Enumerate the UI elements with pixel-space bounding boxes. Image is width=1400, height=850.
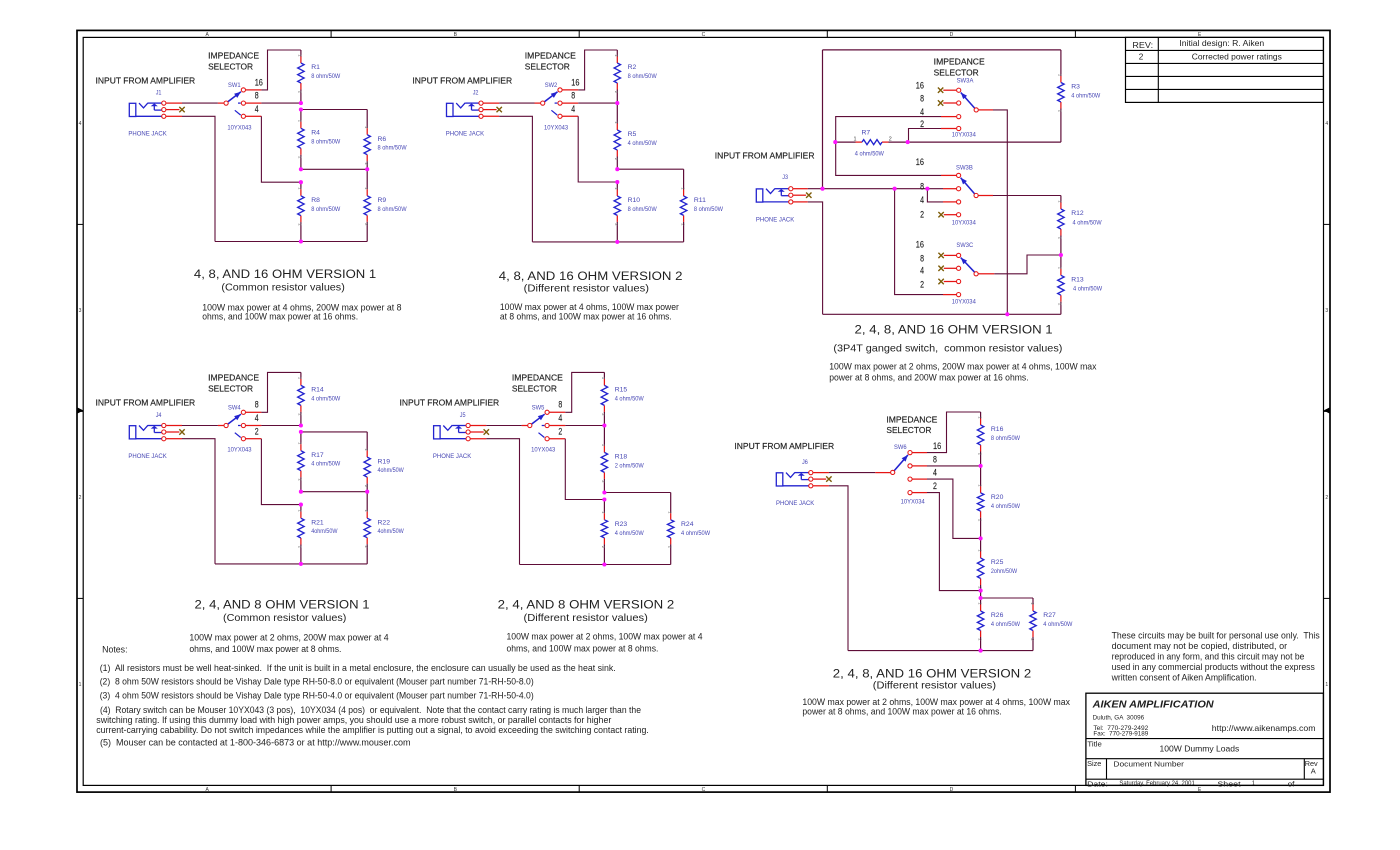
resistor R18 <box>601 426 644 493</box>
svg-text:4 ohm/50W: 4 ohm/50W <box>1043 621 1073 628</box>
copyright notice <box>1111 631 1321 683</box>
wire <box>944 267 956 269</box>
svg-text:(1) All resistors must be wel: (1) All resistors must be well heat-sink… <box>100 663 616 673</box>
svg-text:4 ohm/50W: 4 ohm/50W <box>615 530 645 537</box>
svg-text:R9: R9 <box>378 197 387 204</box>
svg-text:D: D <box>950 32 954 38</box>
junction <box>602 490 606 494</box>
svg-text:J1: J1 <box>156 90 162 97</box>
svg-text:10YX043: 10YX043 <box>227 124 251 131</box>
svg-text:used in any commercial product: used in any commercial products without … <box>1112 662 1316 672</box>
junction <box>979 649 983 653</box>
wire <box>246 89 262 91</box>
svg-text:8 ohm/50W: 8 ohm/50W <box>311 73 341 80</box>
wire <box>829 472 875 474</box>
junction <box>602 562 606 566</box>
svg-text:4ohm/50W: 4ohm/50W <box>311 528 338 535</box>
wire <box>182 116 215 241</box>
svg-text:2: 2 <box>255 426 259 436</box>
svg-text:R24: R24 <box>681 521 694 528</box>
phone jack J1 <box>129 101 166 118</box>
wire <box>532 241 683 243</box>
svg-text:(2) 8 ohm 50W resistors shoul: (2) 8 ohm 50W resistors should be Vishay… <box>100 676 534 686</box>
wire <box>301 431 367 433</box>
svg-text:SELECTOR: SELECTOR <box>208 62 253 71</box>
svg-text:INPUT FROM AMPLIFIER: INPUT FROM AMPLIFIER <box>734 442 834 451</box>
svg-text:R1: R1 <box>311 64 320 71</box>
svg-text:Duluth, GA 30096: Duluth, GA 30096 <box>1093 714 1145 721</box>
svg-text:100W max power at 2 ohms, 100W: 100W max power at 2 ohms, 100W max power… <box>507 632 703 642</box>
junction <box>615 101 619 105</box>
wire <box>246 115 262 117</box>
svg-text:4: 4 <box>571 104 575 114</box>
junction <box>299 423 303 427</box>
wire <box>808 202 823 314</box>
svg-text:4, 8, AND 16 OHM VERSION 1: 4, 8, AND 16 OHM VERSION 1 <box>194 267 376 281</box>
svg-text:4: 4 <box>255 413 259 423</box>
svg-text:3: 3 <box>79 308 82 314</box>
svg-text:2, 4, 8, AND 16 OHM VERSION 2: 2, 4, 8, AND 16 OHM VERSION 2 <box>833 667 1032 681</box>
svg-text:ohms, and 100W max power at 8: ohms, and 100W max power at 8 ohms. <box>189 644 341 654</box>
svg-text:R10: R10 <box>628 197 641 204</box>
junction <box>979 589 983 593</box>
svg-text:R7: R7 <box>862 130 871 137</box>
wire <box>993 195 1061 197</box>
svg-text:10YX034: 10YX034 <box>952 298 976 305</box>
wire <box>912 478 927 480</box>
svg-text:4: 4 <box>1325 121 1328 127</box>
svg-text:4 ohm/50W: 4 ohm/50W <box>991 621 1021 628</box>
svg-text:J5: J5 <box>460 412 466 419</box>
wire <box>578 102 617 104</box>
resistor R1 <box>298 50 341 103</box>
wire <box>215 563 367 565</box>
svg-text:16: 16 <box>916 239 924 249</box>
svg-text:power at 8 ohms, and 200W max: power at 8 ohms, and 200W max power at 1… <box>829 372 1028 382</box>
wire <box>875 472 890 474</box>
svg-text:R14: R14 <box>311 387 324 394</box>
svg-text:R23: R23 <box>615 521 628 528</box>
rotary switch SW4 <box>224 404 252 453</box>
svg-text:10YX034: 10YX034 <box>952 219 976 226</box>
no-connect <box>938 266 943 271</box>
resistor R11 <box>680 169 723 242</box>
svg-text:1: 1 <box>854 136 857 142</box>
wire <box>941 116 956 118</box>
wire <box>562 102 578 104</box>
svg-text:PHONE JACK: PHONE JACK <box>433 453 472 460</box>
svg-text:8: 8 <box>920 254 924 264</box>
wire <box>944 281 956 283</box>
svg-text:reproduced in any form, and th: reproduced in any form, and this circuit… <box>1112 652 1305 662</box>
wire <box>980 591 982 598</box>
svg-text:R17: R17 <box>311 452 324 459</box>
wire <box>261 439 301 505</box>
no-connect <box>938 100 943 105</box>
svg-text:2, 4, 8, AND 16 OHM VERSION 1: 2, 4, 8, AND 16 OHM VERSION 1 <box>855 322 1053 336</box>
svg-text:4ohm/50W: 4ohm/50W <box>378 528 405 535</box>
svg-text:ohms, and 100W max power at 8: ohms, and 100W max power at 8 ohms. <box>507 643 659 653</box>
svg-text:D: D <box>950 787 954 793</box>
wire <box>166 109 179 111</box>
wire <box>823 313 1061 315</box>
svg-text:INPUT FROM AMPLIFIER: INPUT FROM AMPLIFIER <box>412 76 512 85</box>
svg-text:R22: R22 <box>378 519 391 526</box>
svg-text:(3) 4 ohm 50W resistors shoul: (3) 4 ohm 50W resistors should be Vishay… <box>100 690 534 700</box>
svg-text:8: 8 <box>558 400 562 410</box>
svg-text:http://www.aikenamps.com: http://www.aikenamps.com <box>1212 723 1316 733</box>
resistor R20 <box>977 466 1020 539</box>
svg-text:16: 16 <box>916 157 924 167</box>
wire <box>912 452 927 454</box>
phone jack J6 <box>776 471 813 488</box>
no-connect <box>497 107 502 112</box>
svg-text:SW6: SW6 <box>894 444 907 451</box>
wire <box>182 439 215 564</box>
wire <box>578 116 617 182</box>
svg-text:R25: R25 <box>991 559 1004 566</box>
wire <box>549 411 565 413</box>
resistor R26 <box>977 598 1020 651</box>
svg-text:4 ohm/50W: 4 ohm/50W <box>1073 286 1103 293</box>
junction <box>979 536 983 540</box>
svg-text:4 ohm/50W: 4 ohm/50W <box>311 461 341 468</box>
junction <box>615 240 619 244</box>
svg-text:J2: J2 <box>473 90 479 97</box>
wire <box>908 141 1061 143</box>
resistor R25 <box>977 538 1017 590</box>
wire <box>979 273 995 275</box>
wire <box>499 116 532 242</box>
wire <box>944 254 956 256</box>
wire <box>246 411 262 413</box>
svg-text:(3P4T ganged switch, common r: (3P4T ganged switch, common resistor val… <box>833 343 1062 354</box>
svg-text:of: of <box>1288 779 1296 788</box>
wire <box>261 425 301 427</box>
svg-text:Saturday, February 24, 2001: Saturday, February 24, 2001 <box>1119 781 1195 787</box>
wire <box>927 493 981 591</box>
wire <box>166 431 179 433</box>
svg-text:SELECTOR: SELECTOR <box>934 68 979 77</box>
resistor R22 <box>364 492 404 564</box>
svg-text:SELECTOR: SELECTOR <box>208 385 253 394</box>
svg-text:(Common resistor values): (Common resistor values) <box>221 283 344 294</box>
svg-text:SW3C: SW3C <box>956 242 973 249</box>
wire <box>793 188 808 190</box>
svg-text:J3: J3 <box>782 174 788 181</box>
wire <box>520 564 671 566</box>
wire <box>483 115 499 117</box>
wire <box>470 438 486 440</box>
junction <box>602 423 606 427</box>
wire <box>565 439 604 500</box>
junction <box>602 497 606 501</box>
svg-text:R4: R4 <box>311 130 320 137</box>
svg-text:8: 8 <box>571 91 575 101</box>
svg-text:4ohm/50W: 4ohm/50W <box>378 467 405 474</box>
svg-text:4, 8, AND 16 OHM VERSION 2: 4, 8, AND 16 OHM VERSION 2 <box>499 269 683 283</box>
junction <box>979 464 983 468</box>
svg-text:8: 8 <box>920 94 924 104</box>
wire <box>979 195 994 197</box>
wire <box>895 189 943 295</box>
junction <box>365 490 369 494</box>
no-connect <box>938 279 943 284</box>
wire <box>912 492 927 494</box>
wire <box>166 425 182 427</box>
wire <box>813 472 829 474</box>
wire <box>215 241 367 243</box>
svg-text:4: 4 <box>79 121 82 127</box>
svg-text:4 ohm/50W: 4 ohm/50W <box>311 395 341 402</box>
phone jack J3 <box>756 187 793 204</box>
wire <box>813 485 829 487</box>
svg-text:SELECTOR: SELECTOR <box>512 385 557 394</box>
svg-text:2: 2 <box>920 280 924 290</box>
svg-text:Size: Size <box>1087 759 1101 768</box>
svg-text:2: 2 <box>889 136 892 142</box>
wire <box>246 425 262 427</box>
svg-text:R26: R26 <box>991 612 1004 619</box>
wire <box>823 49 1061 51</box>
svg-text:10YX034: 10YX034 <box>952 131 976 138</box>
wire <box>981 597 1033 599</box>
svg-text:2: 2 <box>1325 495 1328 501</box>
svg-text:8 ohm/50W: 8 ohm/50W <box>694 206 724 213</box>
svg-text:PHONE JACK: PHONE JACK <box>756 217 795 224</box>
wire <box>182 102 218 104</box>
svg-text:4: 4 <box>558 413 562 423</box>
wire <box>261 372 301 412</box>
svg-text:C: C <box>702 787 706 793</box>
svg-text:100W max power at 2 ohms, 200W: 100W max power at 2 ohms, 200W max power… <box>189 633 388 643</box>
svg-text:4 ohm/50W: 4 ohm/50W <box>855 151 885 158</box>
wire <box>617 168 683 170</box>
wire <box>979 109 993 111</box>
svg-text:J6: J6 <box>802 459 808 466</box>
wire <box>912 465 927 467</box>
svg-text:R21: R21 <box>311 519 324 526</box>
svg-text:8 ohm/50W: 8 ohm/50W <box>378 145 408 152</box>
wire <box>793 194 806 196</box>
wire <box>182 425 218 427</box>
svg-text:R12: R12 <box>1071 210 1084 217</box>
resistor R17 <box>298 432 341 492</box>
rotary switch SW1 <box>224 82 252 131</box>
svg-text:power at 8 ohms, and 100W max: power at 8 ohms, and 100W max power at 1… <box>802 707 1001 717</box>
svg-text:10YX043: 10YX043 <box>531 447 555 454</box>
wire <box>829 486 848 651</box>
wire <box>246 438 262 440</box>
wire <box>486 439 519 565</box>
svg-text:4 ohm/50W: 4 ohm/50W <box>615 395 645 402</box>
junction <box>906 140 910 144</box>
svg-text:Corrected power ratings: Corrected power ratings <box>1192 53 1282 62</box>
svg-text:INPUT FROM AMPLIFIER: INPUT FROM AMPLIFIER <box>96 399 196 408</box>
junction <box>893 187 897 191</box>
svg-text:R19: R19 <box>378 458 391 465</box>
junction <box>299 562 303 566</box>
wire <box>836 117 941 176</box>
svg-text:2: 2 <box>1139 53 1144 62</box>
svg-text:1: 1 <box>1325 682 1328 688</box>
svg-text:switching rating. If using thi: switching rating. If using this dummy lo… <box>96 715 611 725</box>
svg-text:SW4: SW4 <box>228 404 241 411</box>
svg-text:3: 3 <box>1325 308 1328 314</box>
rotary switch SW3C <box>952 242 979 306</box>
svg-text:16: 16 <box>933 441 941 451</box>
svg-text:16: 16 <box>916 81 924 91</box>
wire <box>994 255 1061 274</box>
rotary switch SW3B <box>952 165 979 227</box>
wire <box>483 102 499 104</box>
svg-text:4 ohm/50W: 4 ohm/50W <box>1073 220 1103 227</box>
wire <box>943 201 957 203</box>
svg-text:8: 8 <box>255 91 259 101</box>
svg-text:at 8 ohms, and 100W max power: at 8 ohms, and 100W max power at 16 ohms… <box>500 311 672 321</box>
no-connect <box>938 88 943 93</box>
svg-text:These circuits may be built fo: These circuits may be built for personal… <box>1112 631 1321 641</box>
svg-text:(4) Rotary switch can be Mous: (4) Rotary switch can be Mouser 10YX043 … <box>100 705 641 715</box>
junction <box>299 430 303 434</box>
resistor R13 <box>1058 255 1103 314</box>
wire <box>848 650 1033 652</box>
junction <box>615 180 619 184</box>
svg-text:100W max power at 2 ohms, 200W: 100W max power at 2 ohms, 200W max power… <box>829 362 1097 372</box>
svg-text:PHONE JACK: PHONE JACK <box>128 130 167 137</box>
wire <box>943 102 956 104</box>
wire <box>927 465 981 467</box>
junction <box>299 167 303 171</box>
svg-text:8: 8 <box>933 454 937 464</box>
svg-text:SW1: SW1 <box>228 82 241 89</box>
svg-text:2: 2 <box>558 426 562 436</box>
svg-text:SW2: SW2 <box>545 82 558 89</box>
svg-text:4: 4 <box>920 266 924 276</box>
wire <box>549 425 565 427</box>
wire <box>927 479 981 538</box>
resistor R7 <box>835 130 907 158</box>
svg-text:8 ohm/50W: 8 ohm/50W <box>628 73 658 80</box>
wire <box>909 129 942 143</box>
svg-text:8 ohm/50W: 8 ohm/50W <box>311 138 341 145</box>
svg-text:8: 8 <box>255 400 259 410</box>
resistor R9 <box>364 169 407 241</box>
wire <box>943 89 956 91</box>
wire <box>578 50 617 90</box>
svg-text:Fax: 770-279-9189: Fax: 770-279-9189 <box>1093 731 1148 738</box>
no-connect <box>806 193 811 198</box>
svg-text:R18: R18 <box>615 454 628 461</box>
svg-text:(5) Mouser can be contacted a: (5) Mouser can be contacted at 1-800-346… <box>100 737 411 747</box>
no-connect <box>179 107 184 112</box>
svg-text:16: 16 <box>255 77 263 87</box>
svg-text:4 ohm/50W: 4 ohm/50W <box>628 140 658 147</box>
resistor R8 <box>298 182 341 241</box>
svg-text:4: 4 <box>920 195 924 205</box>
svg-text:2ohm/50W: 2ohm/50W <box>991 568 1018 575</box>
junction <box>299 180 303 184</box>
wire <box>944 214 957 216</box>
svg-text:2: 2 <box>933 481 937 491</box>
svg-text:2: 2 <box>79 495 82 501</box>
svg-text:8 ohm/50W: 8 ohm/50W <box>311 206 341 213</box>
revision table <box>1126 37 1324 102</box>
svg-text:4: 4 <box>255 104 259 114</box>
svg-text:4: 4 <box>933 468 937 478</box>
svg-text:SELECTOR: SELECTOR <box>886 426 931 435</box>
wire <box>486 425 521 427</box>
wire <box>941 174 957 176</box>
no-connect <box>179 429 184 434</box>
svg-text:2, 4, AND 8 OHM VERSION 1: 2, 4, AND 8 OHM VERSION 1 <box>195 598 370 612</box>
svg-text:current-carrying cabability. D: current-carrying cabability. Do not swit… <box>96 725 649 735</box>
junction <box>820 187 824 191</box>
wire <box>301 109 367 111</box>
wire <box>483 109 496 111</box>
rotary switch SW2 <box>541 82 569 131</box>
svg-text:IMPEDANCE: IMPEDANCE <box>512 374 563 383</box>
rotary switch SW6 <box>891 444 925 506</box>
junction <box>615 167 619 171</box>
phone jack J4 <box>129 423 166 440</box>
svg-text:(Common resistor values): (Common resistor values) <box>223 613 346 624</box>
rotary switch SW3A <box>952 78 979 139</box>
wire <box>927 189 943 202</box>
junction <box>979 596 983 600</box>
wire <box>993 110 1007 314</box>
resistor R27 <box>1030 598 1073 651</box>
svg-text:PHONE JACK: PHONE JACK <box>776 500 815 507</box>
wire <box>166 102 182 104</box>
wire <box>822 50 824 189</box>
no-connect <box>826 476 831 481</box>
svg-text:R15: R15 <box>615 387 628 394</box>
junction <box>299 101 303 105</box>
svg-text:INPUT FROM AMPLIFIER: INPUT FROM AMPLIFIER <box>96 76 196 85</box>
svg-text:SW5: SW5 <box>532 404 545 411</box>
svg-text:IMPEDANCE: IMPEDANCE <box>208 374 259 383</box>
rotary switch SW5 <box>528 404 556 453</box>
wire <box>562 115 578 117</box>
zone letters <box>79 32 1329 793</box>
svg-text:2, 4, AND 8 OHM VERSION 2: 2, 4, AND 8 OHM VERSION 2 <box>498 598 675 612</box>
svg-text:IMPEDANCE: IMPEDANCE <box>886 415 937 424</box>
svg-text:R6: R6 <box>378 136 387 143</box>
wire <box>301 491 367 493</box>
resistor R6 <box>364 110 407 170</box>
svg-text:Initial design: R. Aiken: Initial design: R. Aiken <box>1179 39 1264 48</box>
svg-text:8 ohm/50W: 8 ohm/50W <box>378 206 408 213</box>
resistor R3 <box>1058 50 1101 142</box>
wire <box>218 102 224 104</box>
wire <box>549 438 565 440</box>
resistor R12 <box>1058 196 1102 256</box>
wire <box>261 102 301 104</box>
svg-text:ohms, and 100W max power at 16: ohms, and 100W max power at 16 ohms. <box>202 311 358 321</box>
svg-text:Sheet: Sheet <box>1217 779 1241 788</box>
resistor R4 <box>298 110 341 170</box>
no-connect <box>938 212 943 217</box>
svg-text:100W Dummy Loads: 100W Dummy Loads <box>1160 743 1240 753</box>
svg-text:8 ohm/50W: 8 ohm/50W <box>991 435 1021 442</box>
svg-text:IMPEDANCE: IMPEDANCE <box>208 51 259 60</box>
svg-text:INPUT FROM AMPLIFIER: INPUT FROM AMPLIFIER <box>715 152 815 161</box>
resistor R2 <box>614 50 657 103</box>
svg-text:INPUT FROM AMPLIFIER: INPUT FROM AMPLIFIER <box>400 399 500 408</box>
svg-text:4: 4 <box>920 107 924 117</box>
svg-text:2 ohm/50W: 2 ohm/50W <box>615 462 645 469</box>
